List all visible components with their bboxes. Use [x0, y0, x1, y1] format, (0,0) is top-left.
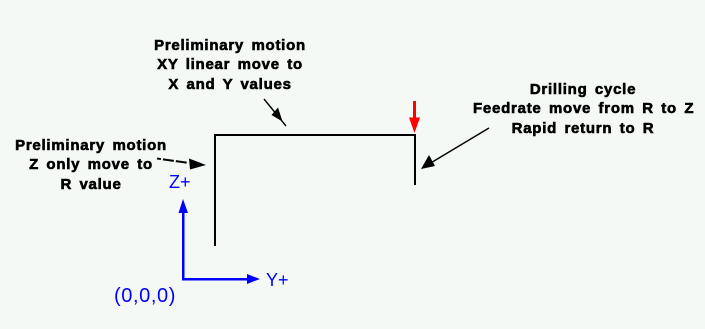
wire: right vertical motion path: [414, 134, 416, 185]
red drill arrow: [409, 101, 420, 133]
annotation arrow: dashed Z-move pointer: [157, 159, 206, 170]
wire: top horizontal motion path: [214, 134, 416, 136]
label: origin (0,0,0) label: [114, 285, 176, 308]
label: preliminary XY motion text: [139, 36, 321, 94]
blue Z axis: [179, 199, 189, 280]
label: preliminary Z motion text: [0, 136, 182, 194]
wire: left vertical motion path: [214, 134, 216, 246]
annotation arrow: XY move pointer: [264, 99, 286, 126]
label: drilling cycle text: [473, 80, 693, 138]
label: Z+ axis label: [169, 172, 191, 193]
blue Y axis: [182, 274, 260, 284]
annotation arrow: drilling cycle pointer: [421, 128, 489, 169]
label: Y+ axis label: [266, 270, 289, 291]
